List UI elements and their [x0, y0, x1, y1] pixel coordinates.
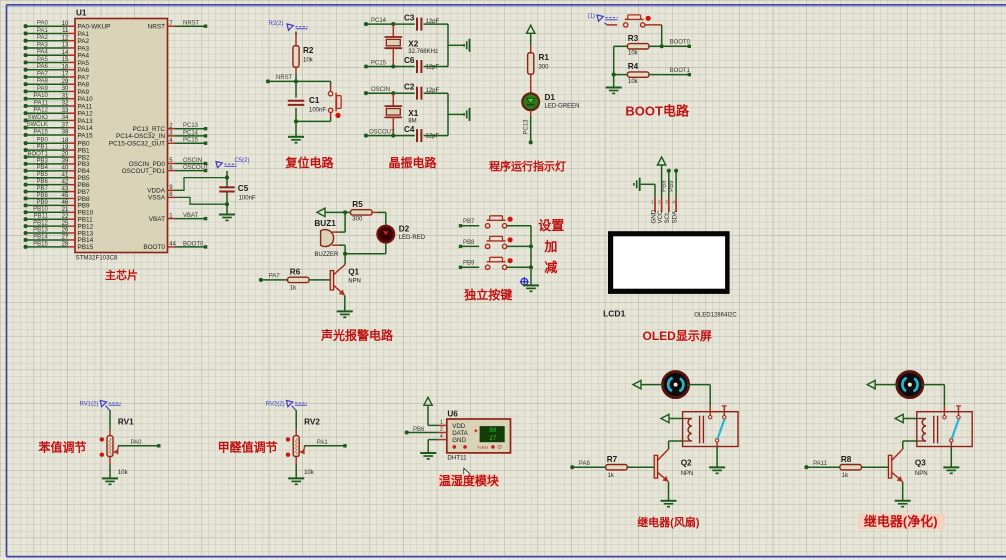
svg-text:PB3: PB3: [36, 158, 48, 164]
relay RL2 body: [917, 412, 972, 447]
pin PB9 / net PB9 (pin 46) with wire: [24, 200, 90, 210]
svg-text:X1: X1: [408, 109, 418, 118]
wire marker to RV2: [295, 410, 297, 436]
junction R3/BOOT0: [660, 44, 664, 48]
svg-text:SWDIO: SWDIO: [27, 115, 48, 121]
push button key 2: [485, 236, 512, 248]
power symbol alarm circuit: [317, 208, 345, 216]
node NRST with wire: [266, 74, 331, 83]
svg-text:D2: D2: [399, 225, 410, 234]
svg-text:PA7: PA7: [37, 71, 49, 77]
svg-text:PA14: PA14: [78, 125, 94, 132]
svg-text:BOOT0: BOOT0: [143, 244, 165, 251]
pin PB3 / net PB3 (pin 39) with wire: [24, 158, 90, 168]
svg-text:NRST: NRST: [148, 24, 165, 31]
pin PA13 / net SWDIO (pin 34) with wire: [24, 115, 94, 125]
pin PB7 / net PB7 (pin 43) with wire: [24, 186, 90, 196]
svg-text:BOOT0: BOOT0: [670, 40, 691, 46]
pin PA15 / net PA15 (pin 38) with wire: [24, 129, 94, 139]
svg-text:LCD1: LCD1: [603, 308, 625, 318]
wire relay common to ground: [716, 442, 718, 467]
svg-text:继电器(净化): 继电器(净化): [864, 514, 938, 529]
svg-text:PB1: PB1: [36, 145, 48, 151]
svg-text:NPN: NPN: [348, 279, 361, 285]
svg-text:PC13: PC13: [524, 119, 530, 135]
svg-text:继电器(风扇): 继电器(风扇): [637, 515, 700, 529]
DHT11 U6 body: [447, 419, 511, 453]
highlight box 继电器(净化): [858, 513, 945, 529]
svg-text:PA8: PA8: [37, 79, 49, 85]
svg-text:BOOT0: BOOT0: [183, 241, 204, 247]
svg-text:12pF: 12pF: [426, 134, 440, 140]
svg-text:R2: R2: [303, 46, 314, 55]
svg-text:16: 16: [62, 64, 69, 70]
net BOOT1 wire and pad: [662, 68, 691, 76]
transistor Q2: [654, 449, 668, 482]
svg-text:R2(2): R2(2): [269, 21, 284, 27]
svg-text:38: 38: [62, 130, 69, 136]
pin NRST (pin 7) right side: [148, 21, 208, 31]
svg-text:33: 33: [62, 108, 69, 114]
svg-text:复位电路: 复位电路: [285, 155, 335, 170]
svg-text:100nF: 100nF: [239, 196, 256, 202]
pin PB10 / net PB10 (pin 21) with wire: [24, 207, 94, 217]
capacitor C4: [417, 129, 421, 142]
svg-text:STM32F103C8: STM32F103C8: [76, 254, 119, 261]
ground below relay: [943, 467, 959, 473]
svg-text:1: 1: [440, 419, 443, 425]
svg-text:NPN: NPN: [681, 471, 694, 477]
ground of lower crystal: [464, 108, 469, 121]
svg-text:RV1(2): RV1(2): [80, 402, 99, 408]
svg-text:PB10: PB10: [33, 207, 48, 213]
junction ground rail key 3: [529, 265, 533, 269]
ground OLED GND rotated: [634, 178, 655, 198]
pin OSCOUT_PD1 (pin 6) right side: [122, 165, 209, 175]
svg-text:PB7: PB7: [463, 219, 475, 225]
origin marker RV2(2): [266, 400, 307, 410]
transistor Q3: [888, 449, 902, 482]
svg-text:OLED12864I2C: OLED12864I2C: [694, 312, 737, 318]
svg-text:10k: 10k: [303, 58, 314, 64]
svg-text:PA3: PA3: [37, 42, 49, 48]
svg-text:28: 28: [62, 242, 69, 248]
svg-text:34: 34: [62, 115, 69, 121]
U6 buttons and %RH label: [453, 445, 502, 450]
svg-text:26: 26: [62, 228, 69, 234]
resistor R1: [528, 46, 534, 93]
junction PC14/X2: [391, 22, 395, 26]
wire marker to RV1: [109, 410, 111, 436]
U6 pin VDD with stub: [438, 419, 466, 430]
svg-text:PA12: PA12: [34, 108, 49, 114]
crystal X1 with connection wires: [385, 93, 403, 135]
svg-text:45: 45: [62, 193, 69, 199]
junction node at C5 bottom: [225, 202, 229, 206]
junction power/R5/buzzer: [343, 210, 347, 214]
origin marker C5(2): [216, 158, 250, 168]
pin BOOT0 (pin 44) right side: [143, 241, 207, 251]
ground below C5: [219, 215, 235, 221]
svg-text:R5: R5: [352, 200, 363, 209]
svg-text:BOOT1: BOOT1: [27, 151, 48, 157]
transistor Q1: [330, 254, 345, 296]
svg-text:PB12: PB12: [33, 221, 48, 227]
svg-text:PA2: PA2: [37, 35, 49, 41]
pin PB11 / net PB11 (pin 22) with wire: [24, 214, 94, 224]
svg-text:U1: U1: [76, 9, 87, 18]
junction OSCIN/X1: [391, 91, 395, 95]
node PA11 with wire: [804, 461, 840, 469]
ground below RV1: [102, 478, 118, 484]
svg-text:加: 加: [543, 239, 557, 254]
svg-text:X2: X2: [408, 40, 418, 49]
svg-text:NRST: NRST: [183, 21, 200, 27]
ground below DHT11: [420, 453, 436, 459]
junction node at C5 top: [225, 176, 229, 180]
svg-text:39: 39: [62, 159, 69, 165]
wire D1 to PC13 node: [530, 111, 532, 143]
svg-text:PB6: PB6: [413, 427, 425, 433]
svg-text:OLED显示屏: OLED显示屏: [643, 329, 712, 343]
svg-text:80: 80: [489, 427, 497, 434]
svg-text:减: 减: [544, 260, 557, 275]
svg-text:40: 40: [62, 166, 69, 172]
potentiometer RV1: [100, 436, 119, 457]
svg-text:PA5: PA5: [78, 60, 90, 67]
power symbol at relay coil: [895, 414, 917, 422]
svg-text:22: 22: [62, 214, 69, 220]
svg-text:独立按键: 独立按键: [463, 287, 512, 302]
pin PA10 / net PA10 (pin 31) with wire: [24, 93, 94, 103]
pin PB2 / net BOOT1 (pin 20) with wire: [24, 151, 90, 161]
svg-text:BUZZER: BUZZER: [314, 252, 339, 258]
svg-text:PA7: PA7: [269, 274, 281, 280]
node OSCIN with wire: [364, 87, 415, 95]
buzzer BUZ1: [321, 230, 339, 247]
wire C5 vertical: [226, 171, 228, 214]
junction PC15/X2: [391, 64, 395, 68]
svg-text:PB7: PB7: [36, 186, 48, 192]
resistor R8: [840, 465, 888, 470]
svg-text:D1: D1: [545, 93, 556, 102]
svg-text:46: 46: [62, 200, 69, 206]
node PB8 with wire to key: [459, 240, 479, 248]
wire relay common to ground: [950, 442, 952, 467]
pin VBAT (pin 1) right side: [149, 213, 208, 223]
svg-text:PA9: PA9: [78, 89, 90, 96]
svg-text:27: 27: [62, 235, 69, 241]
wire marker to R2: [295, 32, 297, 36]
wire key 3 to ground rail: [507, 266, 531, 268]
svg-text:C3: C3: [404, 14, 415, 23]
node OSCOUT with wire: [364, 130, 415, 138]
ground below relay: [709, 467, 725, 473]
svg-text:17: 17: [62, 72, 69, 78]
svg-text:21: 21: [62, 207, 69, 213]
origin marker R2(2): [269, 21, 308, 30]
pin PA6 / net PA6 (pin 16) with wire: [24, 64, 90, 74]
svg-text:RV2(2): RV2(2): [266, 402, 285, 408]
svg-text:PB8: PB8: [463, 240, 475, 246]
svg-text:15: 15: [62, 57, 69, 63]
svg-text:设置: 设置: [538, 218, 564, 233]
potentiometer RV2: [286, 436, 305, 457]
wire C1 to ground junction: [295, 108, 297, 132]
svg-text:PB4: PB4: [36, 165, 48, 171]
svg-text:SDA: SDA: [671, 210, 678, 224]
node PA8 with wire: [570, 461, 606, 469]
pin PA3 / net PA3 (pin 13) with wire: [24, 42, 90, 52]
svg-text:声光报警电路: 声光报警电路: [320, 328, 394, 343]
wire key 1 to ground rail: [507, 225, 531, 227]
svg-text:甲醛值调节: 甲醛值调节: [218, 439, 278, 454]
svg-text:PB8: PB8: [662, 180, 668, 192]
pin PA4 / net PA4 (pin 14) with wire: [24, 50, 90, 60]
vertical ground rail of keys: [530, 226, 532, 285]
node SCL wire with dot: [667, 169, 671, 198]
svg-text:Q1: Q1: [348, 268, 359, 277]
svg-text:Q3: Q3: [915, 459, 926, 468]
svg-text:1k: 1k: [290, 286, 297, 292]
svg-text:PA11: PA11: [813, 461, 827, 467]
svg-text:32: 32: [62, 101, 69, 107]
motor of Q2 circuit: [663, 372, 689, 398]
svg-text:PA10: PA10: [78, 96, 94, 103]
pin VDDA (pin 9) right side: [147, 185, 175, 195]
svg-text:42: 42: [62, 179, 69, 185]
power symbol at motor: [867, 380, 897, 388]
pin PA9 / net PA9 (pin 30) with wire: [24, 86, 90, 96]
svg-text:VCC: VCC: [657, 210, 664, 224]
node PA7 with wire: [259, 274, 288, 282]
wire marker to BOOT button: [605, 23, 608, 25]
svg-text:OSCOUT: OSCOUT: [369, 130, 395, 136]
wire R5 to D2: [385, 212, 387, 225]
svg-text:温湿度模块: 温湿度模块: [439, 473, 500, 488]
svg-text:PA0-WKUP: PA0-WKUP: [78, 24, 111, 31]
wire buzzer bottom to collector junction: [339, 245, 345, 254]
svg-text:PA11: PA11: [34, 100, 48, 106]
svg-text:C6: C6: [404, 56, 415, 65]
svg-text:PA13: PA13: [78, 118, 94, 125]
pin PA12 / net PA12 (pin 33) with wire: [24, 108, 94, 118]
svg-text:18: 18: [62, 138, 69, 144]
wire relay coil to Q3 collector: [903, 441, 917, 449]
svg-text:PA12: PA12: [78, 111, 94, 118]
svg-text:C2: C2: [404, 83, 415, 92]
svg-text:32.768KHz: 32.768KHz: [408, 49, 438, 55]
pin VSSA (pin 8) right side: [148, 192, 175, 202]
svg-text:苯值调节: 苯值调节: [38, 439, 87, 454]
svg-text:R3: R3: [628, 34, 639, 43]
svg-text:OSCIN: OSCIN: [371, 87, 390, 93]
svg-text:PA8: PA8: [78, 82, 90, 89]
svg-text:VBAT: VBAT: [183, 213, 199, 219]
svg-text:20: 20: [62, 152, 69, 158]
svg-text:OSCIN_PD0: OSCIN_PD0: [129, 161, 166, 168]
svg-text:PA11: PA11: [78, 103, 93, 110]
power symbol above R1: [527, 25, 535, 46]
svg-text:10k: 10k: [628, 79, 639, 85]
push button key 3: [485, 257, 512, 269]
ground below Q2: [661, 501, 677, 507]
pin PA11 / net PA11 (pin 32) with wire: [24, 100, 93, 110]
node PB9 with wire to key: [459, 261, 479, 269]
ground below RV2: [288, 478, 304, 484]
svg-text:R7: R7: [607, 455, 618, 464]
svg-text:PB13: PB13: [33, 227, 48, 233]
svg-text:%RH: %RH: [478, 445, 489, 450]
capacitor C2: [417, 87, 421, 100]
svg-text:PA4: PA4: [78, 53, 90, 60]
svg-text:PB5: PB5: [36, 172, 48, 178]
junction below C1: [294, 119, 298, 123]
push button key 1: [485, 216, 512, 228]
node PB6 with wire: [405, 427, 438, 435]
svg-text:PC14: PC14: [371, 18, 387, 24]
svg-text:VDD: VDD: [452, 423, 466, 430]
svg-text:12pF: 12pF: [426, 65, 440, 71]
svg-text:4: 4: [440, 434, 443, 440]
svg-text:RV2: RV2: [304, 418, 320, 427]
wire GND pin to ground: [428, 440, 437, 453]
pin PB15 / net PB15 (pin 28) with wire: [24, 241, 94, 251]
LCD1 OLED display body: [608, 231, 730, 294]
svg-text:C5(2): C5(2): [235, 158, 250, 164]
svg-text:10: 10: [62, 21, 69, 27]
origin marker RV1(2): [80, 400, 121, 410]
svg-text:PC14: PC14: [183, 130, 199, 136]
capacitor C1: [288, 101, 305, 105]
node PC15 with wire: [364, 60, 415, 68]
svg-text:PA1: PA1: [317, 440, 329, 446]
svg-text:29: 29: [62, 79, 69, 85]
svg-text:PA6: PA6: [37, 64, 49, 70]
svg-text:RV1: RV1: [118, 418, 134, 427]
ground of BOOT circuit: [606, 88, 622, 94]
svg-text:PA10: PA10: [34, 93, 49, 99]
svg-text:GND: GND: [452, 437, 466, 444]
blue reference cross marker: [520, 277, 529, 286]
node PC14 with wire: [364, 18, 415, 26]
wire key 2 to ground rail: [507, 245, 531, 247]
svg-text:PA15: PA15: [34, 129, 49, 135]
OLED pin stubs with pin numbers: [651, 198, 676, 212]
svg-text:PC14-OSC32_IN: PC14-OSC32_IN: [116, 133, 165, 140]
svg-text:PC13_RTC: PC13_RTC: [132, 126, 165, 133]
svg-text:Q2: Q2: [681, 459, 692, 468]
relay switch lever: [952, 419, 959, 439]
svg-text:PC13: PC13: [183, 123, 199, 129]
wire buzzer top to power rail: [339, 212, 345, 232]
svg-text:OSCOUT: OSCOUT: [183, 165, 209, 171]
svg-text:NRST: NRST: [276, 75, 293, 81]
svg-text:晶振电路: 晶振电路: [389, 155, 438, 170]
svg-text:31: 31: [62, 93, 69, 99]
svg-text:OSCIN: OSCIN: [183, 158, 202, 164]
power symbol OLED VCC: [657, 157, 665, 198]
ground below Q3: [895, 501, 911, 507]
svg-text:(1): (1): [588, 14, 595, 20]
svg-text:C4: C4: [404, 125, 415, 134]
svg-text:43: 43: [62, 186, 69, 192]
pin PA7 / net PA7 (pin 17) with wire: [24, 71, 90, 81]
svg-text:PA5: PA5: [37, 57, 49, 63]
svg-text:R4: R4: [628, 62, 639, 71]
ground of alarm circuit: [337, 311, 353, 317]
pin PB14 / net PB14 (pin 27) with wire: [24, 234, 94, 244]
svg-text:1k: 1k: [608, 473, 615, 479]
svg-text:25: 25: [62, 221, 69, 227]
wire relay coil to Q2 collector: [669, 441, 683, 449]
svg-text:PA15: PA15: [78, 132, 94, 139]
pin OSCIN_PD0 (pin 5) right side: [129, 158, 208, 168]
power symbol DHT11: [424, 397, 438, 425]
svg-text:PB11: PB11: [34, 214, 49, 220]
wire VDDA to C5: [175, 178, 227, 191]
wire emitter to ground: [344, 295, 346, 311]
pin PB13 / net PB13 (pin 26) with wire: [24, 227, 94, 237]
junction NRST/R2/C1: [294, 79, 298, 83]
svg-text:PB6: PB6: [36, 179, 48, 185]
resistor R3: [614, 44, 662, 49]
op-amp U1 body (STM32F103C8 MCU): [75, 19, 168, 253]
pin PA5 / net PA5 (pin 15) with wire: [24, 57, 90, 67]
wire RV2 to ground: [295, 457, 297, 479]
pin PA2 / net PA2 (pin 12) with wire: [24, 35, 90, 45]
BOOT push button: [607, 15, 651, 27]
wire C3 to right rail: [424, 23, 448, 25]
wire right rail lower crystal: [424, 93, 464, 135]
svg-text:C1: C1: [309, 96, 320, 105]
pin PA8 / net PA8 (pin 29) with wire: [24, 79, 90, 89]
svg-text:VDDA: VDDA: [147, 188, 165, 195]
LED D2 red: [377, 226, 394, 243]
svg-text:U6: U6: [447, 410, 458, 419]
wire Q2 emitter to ground: [668, 482, 670, 501]
svg-text:程序运行指示灯: 程序运行指示灯: [489, 159, 566, 173]
wire Q3 emitter to ground: [902, 482, 904, 501]
svg-text:R6: R6: [290, 268, 301, 277]
svg-text:PA6: PA6: [78, 67, 90, 74]
svg-text:300: 300: [539, 65, 550, 71]
wire button bottom to C1 junction: [296, 120, 331, 122]
resistor R4: [614, 72, 662, 77]
svg-text:LED-GREEN: LED-GREEN: [545, 104, 580, 110]
wire right rail upper crystal: [424, 24, 464, 66]
svg-text:300: 300: [352, 217, 363, 223]
svg-text:DHT11: DHT11: [447, 455, 467, 462]
wire motor to relay contact: [922, 385, 945, 406]
svg-text:PC15-OSC32_OUT: PC15-OSC32_OUT: [109, 141, 165, 148]
pin PB5 / net PB5 (pin 41) with wire: [24, 172, 90, 182]
relay contact pins: [943, 406, 961, 442]
junction ground rail key 2: [529, 244, 533, 248]
svg-text:13: 13: [62, 43, 69, 49]
pin PA14 / net SWCLK (pin 37) with wire: [24, 122, 94, 132]
svg-text:PC15: PC15: [371, 60, 387, 66]
pin PB4 / net PB4 (pin 40) with wire: [24, 165, 90, 175]
junction collector node: [343, 252, 347, 256]
pin PB0 / net PB0 (pin 18) with wire: [24, 138, 90, 148]
svg-text:PB9: PB9: [669, 180, 675, 192]
svg-text:27: 27: [489, 435, 497, 442]
wire left rail R3 to R4: [613, 46, 615, 88]
svg-text:PB9: PB9: [463, 261, 475, 267]
svg-text:SWCLK: SWCLK: [26, 122, 47, 128]
resistor R2: [293, 33, 299, 74]
